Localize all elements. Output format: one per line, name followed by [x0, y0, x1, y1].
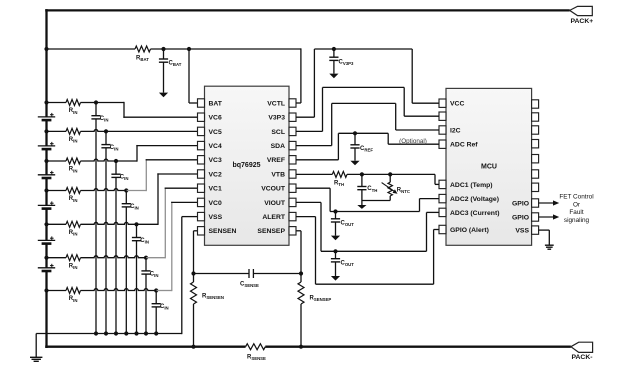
wire VIOUT to MCU ADC3 [296, 202, 439, 251]
svg-text:VC0: VC0 [209, 200, 222, 207]
ground earth bottom-left [30, 357, 42, 361]
battery cell 4 [38, 201, 55, 208]
svg-text:RIN: RIN [69, 263, 78, 270]
wire SCL to MCU [296, 87, 439, 131]
wire SENSEN pin down [194, 231, 198, 282]
node SENSEP [299, 271, 303, 275]
resistor RIN 2 [66, 128, 80, 134]
wire VSS bus to ground [35, 334, 37, 358]
wire PACK+ top rail [45, 9, 570, 11]
label COUT1 [341, 221, 355, 228]
resistor RSENSEN [191, 282, 197, 304]
svg-text:COUT: COUT [341, 261, 355, 268]
node row 2 on VSS bus [104, 331, 108, 335]
battery cell 2 [38, 142, 55, 149]
svg-text:VC3: VC3 [209, 157, 222, 164]
svg-text:GPIO (Alert): GPIO (Alert) [450, 227, 489, 234]
wire RSENSEP to rail [300, 304, 302, 347]
node row 6 CIN junction [144, 256, 148, 260]
node RSENSEN on rail [191, 345, 195, 349]
svg-text:RSENSEP: RSENSEP [310, 296, 332, 303]
capacitor CIN 1 [91, 103, 100, 334]
svg-text:RIN: RIN [69, 196, 78, 203]
capacitor CIN 5 [132, 224, 141, 333]
wire BAT/VCTL rail [47, 48, 301, 50]
wire row 4 route to pin [126, 159, 197, 191]
label RIN 1 [69, 108, 78, 115]
label RNTC [397, 188, 410, 195]
resistor RIN 7 [66, 288, 80, 294]
node CV3P3 tap [332, 47, 336, 51]
resistor RIN 3 [66, 158, 80, 164]
node row 1 on battery bus [44, 100, 48, 104]
ground MCU VSS [545, 245, 554, 249]
wire row 2 to CIN junction [81, 129, 107, 131]
pin labels MCU left [450, 101, 499, 234]
capacitor CIN 4 [122, 191, 131, 334]
wire row 1 to CIN junction [81, 102, 97, 104]
pin labels MCU right [512, 200, 529, 234]
label RBAT [136, 56, 149, 63]
wire RSENSEN to rail [193, 304, 195, 347]
svg-text:Or: Or [573, 201, 581, 208]
svg-text:CIN: CIN [150, 271, 159, 278]
svg-text:CIN: CIN [110, 145, 119, 152]
resistor RIN 5 [66, 221, 80, 227]
resistor RIN 6 [66, 255, 80, 261]
wire tap row 1 from battery bus [47, 102, 67, 104]
label FET control text [559, 194, 593, 224]
capacitor CTH [357, 174, 366, 200]
ground below COUT1 [331, 236, 340, 241]
svg-text:ADC Ref: ADC Ref [450, 142, 478, 149]
svg-text:VCOUT: VCOUT [261, 186, 286, 193]
capacitor COUT1 [331, 212, 340, 236]
node SENSEN [191, 271, 195, 275]
node COUT1 tap [333, 209, 337, 213]
svg-text:CV3P3: CV3P3 [339, 60, 354, 67]
node row 4 CIN junction [124, 188, 128, 192]
pins MCU right [532, 100, 539, 234]
label COUT2 [341, 261, 355, 268]
wire VSS bus [36, 333, 182, 335]
svg-text:CIN: CIN [140, 238, 149, 245]
node row 4 on battery bus [44, 188, 48, 192]
wire BAT pin branch [189, 49, 198, 103]
wire row 5 to CIN junction [81, 222, 137, 224]
node CBAT tap [161, 47, 165, 51]
label RSENSE [247, 355, 266, 362]
svg-text:CIN: CIN [100, 116, 109, 123]
capacitor COUT2 [331, 251, 340, 276]
label RIN 2 [69, 137, 78, 144]
label CIN 3 [120, 175, 129, 182]
label CIN 6 [150, 271, 159, 278]
node row 5 CIN junction [134, 222, 138, 226]
svg-text:SDA: SDA [271, 143, 285, 150]
wire ALERT to MCU GPIO [296, 217, 439, 285]
svg-text:I2C: I2C [450, 127, 461, 134]
label CBAT [169, 61, 182, 68]
node RSENSEP on rail [299, 345, 303, 349]
label RIN 3 [69, 167, 78, 174]
node RNTC tap [388, 172, 392, 176]
svg-text:RIN: RIN [69, 296, 78, 303]
wire row 7 route to pin [156, 202, 197, 291]
svg-text:ADC2 (Voltage): ADC2 (Voltage) [450, 196, 499, 203]
wire row 3 route to pin [116, 145, 198, 162]
wire VCOUT to MCU ADC2 [296, 188, 439, 211]
svg-text:VC5: VC5 [209, 129, 222, 136]
wire tap row 2 from battery bus [47, 130, 67, 132]
battery cell 5 [38, 236, 55, 243]
capacitor CREF [350, 133, 359, 160]
svg-text:VREF: VREF [267, 157, 285, 164]
svg-text:RIN: RIN [69, 108, 78, 115]
svg-text:ADC3 (Current): ADC3 (Current) [450, 210, 499, 217]
svg-text:COUT: COUT [341, 221, 355, 228]
wire row 1 route to pin [96, 102, 198, 118]
node BAT branch [187, 47, 191, 51]
node row 7 on battery bus [44, 288, 48, 292]
svg-text:SENSEP: SENSEP [257, 228, 285, 235]
capacitor CIN 6 [141, 258, 150, 334]
svg-text:VC1: VC1 [209, 186, 222, 193]
svg-text:RBAT: RBAT [136, 56, 149, 63]
svg-text:CTH: CTH [367, 186, 377, 193]
pins bq76925 left [198, 99, 205, 235]
svg-text:Fault: Fault [569, 209, 583, 216]
svg-text:SCL: SCL [271, 129, 285, 136]
svg-text:CBAT: CBAT [169, 61, 182, 68]
resistor RTH [332, 171, 347, 177]
node row 3 on battery bus [44, 159, 48, 163]
svg-text:VIOUT: VIOUT [264, 200, 286, 207]
wire tap row 4 from battery bus [47, 190, 67, 192]
svg-text:BAT: BAT [209, 100, 223, 107]
battery cell 6 [38, 264, 55, 271]
node row 5 on battery bus [44, 222, 48, 226]
wire row 3 to CIN junction [81, 159, 117, 161]
svg-text:V3P3: V3P3 [268, 115, 285, 122]
svg-text:VC4: VC4 [209, 143, 222, 150]
node row 2 on battery bus [44, 129, 48, 133]
wire row 5 route to pin [137, 173, 198, 225]
wire MCU VSS to ground [539, 230, 550, 245]
wire tap row 5 from battery bus [47, 223, 67, 225]
svg-text:(Optional): (Optional) [399, 138, 427, 145]
wire VCTL to rail [296, 48, 301, 103]
node row 7 on VSS bus [154, 331, 158, 335]
resistor RSENSE [246, 344, 266, 350]
svg-text:CIN: CIN [120, 175, 129, 182]
label CV3P3 [339, 60, 354, 67]
svg-text:VSS: VSS [515, 228, 529, 235]
node CTH tap [360, 172, 364, 176]
svg-text:MCU: MCU [481, 164, 497, 171]
capacitor CSENSE [194, 269, 302, 278]
wire left battery rail [45, 9, 47, 348]
svg-text:CIN: CIN [130, 204, 139, 211]
node row 4 on VSS bus [124, 331, 128, 335]
wire row 6 route to pin [146, 188, 198, 259]
label CIN 5 [140, 238, 149, 245]
svg-text:VCC: VCC [450, 101, 464, 108]
svg-text:CREF: CREF [360, 146, 373, 153]
capacitor CBAT [159, 49, 168, 93]
node row 6 on VSS bus [144, 331, 148, 335]
resistor RIN 4 [66, 188, 80, 194]
resistor RIN 1 [66, 100, 80, 106]
svg-text:ADC1 (Temp): ADC1 (Temp) [450, 182, 493, 189]
label Optional [399, 138, 427, 145]
node battery top / rail junction [44, 47, 48, 51]
svg-text:PACK+: PACK+ [571, 18, 594, 25]
label RIN 6 [69, 263, 78, 270]
pins bq76925 right [289, 99, 296, 235]
svg-text:ALERT: ALERT [262, 214, 286, 221]
connector PACK- [571, 342, 593, 361]
wire tap row 6 from battery bus [47, 257, 67, 259]
pin labels bq76925 right [257, 100, 285, 235]
capacitor CIN 2 [101, 131, 110, 333]
label RTH [334, 180, 344, 187]
thermistor RNTC [382, 174, 398, 200]
node row 1 CIN junction [94, 100, 98, 104]
svg-text:CSENSE: CSENSE [240, 282, 259, 289]
op-amp U1 bq76925 body [205, 86, 290, 245]
ground below CV3P3 [329, 74, 338, 79]
svg-text:RTH: RTH [334, 180, 344, 187]
svg-text:RSENSE: RSENSE [247, 355, 266, 362]
svg-text:bq76925: bq76925 [232, 162, 260, 169]
svg-text:PACK-: PACK- [572, 354, 593, 361]
label CIN 7 [160, 304, 169, 311]
node row 6 on battery bus [44, 256, 48, 260]
wire VSS pin to VSS bus [182, 217, 198, 335]
node row 7 CIN junction [154, 288, 158, 292]
wire PACK- bottom rail right segment [265, 346, 571, 348]
node row 1 on VSS bus [94, 331, 98, 335]
svg-text:RIN: RIN [69, 137, 78, 144]
wire SENSEP pin down [296, 231, 301, 282]
svg-text:VCTL: VCTL [267, 100, 285, 107]
ground below CTH [357, 205, 366, 209]
pin labels bq76925 left [209, 100, 237, 235]
svg-text:FET Control: FET Control [559, 194, 593, 201]
label RSENSEN [202, 293, 224, 300]
svg-text:GPIO: GPIO [512, 214, 529, 221]
wire PACK- bottom rail left segment [45, 346, 245, 348]
label CIN 2 [110, 145, 119, 152]
svg-text:CIN: CIN [160, 304, 169, 311]
wire row 6 to CIN junction [81, 256, 147, 258]
pins MCU left [439, 99, 446, 234]
wire row 4 to CIN junction [81, 189, 127, 191]
wire VTB row [296, 174, 439, 184]
label RSENSEP [310, 296, 332, 303]
label RIN 4 [69, 196, 78, 203]
battery cell 3 [38, 171, 55, 178]
ground below CBAT [159, 93, 168, 98]
capacitor CIN 7 [152, 291, 161, 334]
svg-text:SENSEN: SENSEN [209, 228, 237, 235]
label CREF [360, 146, 373, 153]
node row 2 CIN junction [104, 129, 108, 133]
resistor RBAT [135, 46, 150, 52]
node row 5 on VSS bus [134, 331, 138, 335]
node row 3 on VSS bus [114, 331, 118, 335]
label RIN 7 [69, 296, 78, 303]
ground below CREF [350, 161, 359, 166]
wire CTH RNTC bottom bar [362, 201, 390, 206]
label RIN 5 [69, 230, 78, 237]
label CIN 1 [100, 116, 109, 123]
battery cell 1 [38, 113, 55, 120]
svg-text:RSENSEN: RSENSEN [202, 293, 224, 300]
capacitor CIN 3 [111, 161, 120, 334]
label CTH [367, 186, 377, 193]
label CIN 4 [130, 204, 139, 211]
wire row 2 to pin VC5 [106, 130, 198, 132]
node row 3 CIN junction [114, 159, 118, 163]
svg-text:RIN: RIN [69, 167, 78, 174]
wire tap row 7 from battery bus [47, 290, 67, 292]
svg-text:RNTC: RNTC [397, 188, 410, 195]
label CSENSE [240, 282, 259, 289]
svg-text:VC6: VC6 [209, 115, 222, 122]
connector PACK+ [570, 6, 594, 24]
svg-text:VTB: VTB [271, 171, 285, 178]
svg-text:GPIO: GPIO [512, 200, 529, 207]
svg-text:VSS: VSS [209, 214, 223, 221]
svg-text:signaling: signaling [564, 217, 590, 224]
resistor RSENSEP [298, 282, 304, 304]
wire V3P3 to MCU VCC [296, 49, 439, 117]
wire GPIO arrow 1 [539, 200, 560, 205]
capacitor CV3P3 [329, 49, 338, 74]
wire tap row 3 from battery bus [47, 160, 67, 162]
svg-text:VC2: VC2 [209, 171, 222, 178]
ground below COUT2 [331, 276, 340, 281]
svg-text:RIN: RIN [69, 230, 78, 237]
node COUT2 tap [333, 249, 337, 253]
op-amp U2 MCU body [446, 88, 532, 245]
wire GPIO arrow 2 [539, 214, 560, 219]
wire VREF to MCU ADC Ref [296, 133, 439, 160]
wire SDA to MCU I2C [296, 103, 439, 145]
wire row 7 to CIN junction [81, 289, 157, 291]
node CREF tap [353, 131, 357, 135]
